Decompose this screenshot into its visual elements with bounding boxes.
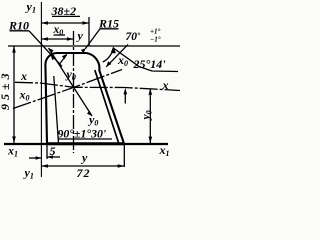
y0 axis top arrowhead	[49, 48, 54, 54]
70 degree leader line	[106, 45, 128, 67]
svg-text:y: y	[76, 29, 84, 43]
y1 axis vertical line	[40, 2, 42, 177]
y axis vertical line through centroid	[73, 31, 75, 153]
R15 leader arrowhead	[81, 48, 86, 53]
extra radius arrow at top edge	[60, 55, 67, 65]
dimension x0 (top) line with arrows	[41, 38, 73, 40]
svg-text:x: x	[20, 69, 27, 83]
70 degree dimension arc	[103, 48, 114, 63]
dimension 72 line with arrows	[41, 165, 124, 167]
short up arrow at x axis near corner	[124, 90, 126, 104]
dimension 95±3 vertical line with arrows	[13, 46, 15, 143]
inner thin line left	[54, 76, 59, 144]
svg-text:+1°: +1°	[150, 28, 160, 36]
R10 leader line through corner	[29, 31, 62, 67]
svg-text:95±3: 95±3	[0, 69, 12, 110]
dimension 5 outside arrows	[29, 157, 41, 159]
y0 axis bottom arrowhead	[87, 111, 92, 117]
svg-text:25°14': 25°14'	[133, 57, 167, 71]
dimension 38±2 line with arrows	[41, 22, 89, 24]
y0 principal axis with arrows	[49, 48, 93, 116]
extension line bottom-left corner	[46, 145, 48, 159]
leader for angle 25deg14 with up arrow	[114, 49, 178, 72]
x axis polyline	[15, 82, 180, 90]
R15 leader line	[85, 29, 100, 49]
R10 leader arrowhead	[50, 54, 55, 60]
top reference thin line	[8, 45, 180, 47]
svg-text:x: x	[162, 78, 169, 92]
profile bottom edge on x1	[47, 143, 125, 146]
svg-text:−1°: −1°	[150, 36, 161, 44]
x1 axis horizontal line	[4, 143, 168, 145]
dimension 38±2 right extension line	[88, 17, 90, 46]
extension line bottom-right corner	[123, 145, 125, 167]
inner slant line parallel to right edge	[95, 70, 119, 144]
70 degree arc up arrowhead	[111, 47, 115, 53]
dimension y0 right vertical with arrows	[149, 89, 151, 143]
svg-text:72: 72	[77, 166, 91, 180]
70 degree leader arrowhead	[106, 61, 111, 67]
svg-text:y: y	[80, 151, 88, 165]
x0 axis slanted line	[13, 70, 122, 109]
profile outline	[45, 53, 124, 143]
svg-text:5: 5	[50, 144, 56, 158]
